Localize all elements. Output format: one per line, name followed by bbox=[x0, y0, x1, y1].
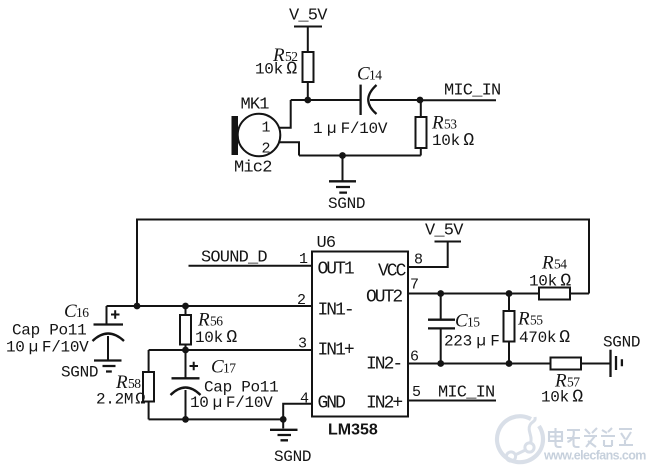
svg-text:4: 4 bbox=[300, 391, 309, 408]
wire R52 bottom to node bbox=[307, 82, 309, 100]
svg-text:2: 2 bbox=[262, 141, 270, 158]
resistor R58 wire top bbox=[148, 350, 150, 372]
svg-text:SOUND_D: SOUND_D bbox=[201, 249, 267, 268]
node F junction dot bbox=[182, 347, 189, 354]
watermark chinese text 电子发烧友 bbox=[549, 428, 633, 447]
pin number 3 (U6) bbox=[298, 336, 307, 353]
pin number 2 (U6) bbox=[297, 292, 305, 309]
ground SGND (pin4) bbox=[270, 430, 298, 441]
svg-text:SGND: SGND bbox=[274, 448, 311, 466]
R55 value 470kΩ bbox=[519, 328, 570, 348]
capacitor C14 value 1uF/10V bbox=[313, 120, 388, 138]
pin number 6 (U6) bbox=[410, 349, 419, 366]
net SOUND_D label bbox=[201, 249, 267, 268]
net MIC_IN label (pin5) bbox=[438, 384, 494, 403]
resistor R56 bbox=[180, 315, 191, 345]
microphone MK1 element bar bbox=[232, 116, 239, 155]
svg-text:14: 14 bbox=[369, 68, 382, 83]
svg-text:10µF/10V: 10µF/10V bbox=[6, 339, 89, 357]
svg-text:7: 7 bbox=[410, 277, 418, 294]
svg-text:V_5V: V_5V bbox=[289, 7, 328, 26]
node C junction dot bbox=[339, 152, 346, 159]
svg-text:8: 8 bbox=[414, 252, 423, 269]
R53 label bbox=[431, 113, 457, 134]
wire node C to ground bbox=[342, 156, 344, 182]
svg-text:IN2-: IN2- bbox=[366, 355, 401, 375]
svg-text:Cap Po11: Cap Po11 bbox=[12, 322, 86, 340]
node D junction dot bbox=[134, 303, 141, 310]
SGND label (pin4) bbox=[274, 448, 311, 466]
pin number 8 (U6) bbox=[414, 252, 423, 269]
svg-text:58: 58 bbox=[128, 376, 141, 391]
C17 plus sign bbox=[190, 362, 199, 370]
U6 pin name IN2+ bbox=[366, 394, 402, 414]
wire node H to ground bbox=[282, 419, 284, 428]
microphone MK1 label bbox=[241, 96, 270, 115]
svg-text:17: 17 bbox=[223, 361, 236, 376]
resistor R58 bbox=[143, 372, 154, 402]
resistor R56 wire bottom bbox=[185, 345, 187, 351]
ground SGND (top section) bbox=[329, 181, 356, 192]
wire R57 to ground bbox=[581, 363, 610, 365]
op-amp U6 box bbox=[312, 252, 408, 417]
power V_5V label (top) bbox=[289, 7, 328, 26]
svg-text:GND: GND bbox=[318, 394, 346, 414]
bottom wire (mic return) bbox=[299, 155, 421, 157]
resistor R55 wire top bbox=[508, 294, 510, 312]
R54 value 10kΩ bbox=[529, 272, 571, 292]
pin 6 wire bbox=[408, 363, 551, 365]
R52 label bbox=[272, 45, 298, 66]
svg-text:6: 6 bbox=[410, 349, 419, 366]
wire C17 bottom bbox=[185, 390, 187, 419]
svg-text:3: 3 bbox=[298, 336, 307, 353]
pin 4 wire bbox=[283, 404, 312, 420]
capacitor C15 top wire bbox=[440, 294, 442, 320]
power V_5V bar symbol (right) bbox=[435, 241, 462, 243]
net MIC_IN wire (top) bbox=[420, 99, 496, 101]
capacitor C15 bottom wire bbox=[440, 328, 442, 363]
capacitor C16 top plate bbox=[94, 323, 124, 325]
pin number 1 (mic) bbox=[262, 120, 271, 137]
svg-text:IN1-: IN1- bbox=[318, 301, 353, 321]
svg-text:R: R bbox=[517, 309, 530, 330]
node A junction dot bbox=[304, 97, 311, 104]
node B junction dot bbox=[417, 97, 424, 104]
R58 label bbox=[115, 372, 141, 393]
pin number 4 (U6) bbox=[300, 391, 309, 408]
capacitor C16 positive wire bbox=[106, 306, 108, 325]
wire node B to R53 bbox=[420, 100, 422, 117]
svg-text:2: 2 bbox=[297, 292, 305, 309]
node J junction dot bbox=[506, 290, 513, 297]
capacitor C14 left plate bbox=[359, 85, 361, 115]
svg-text:OUT2: OUT2 bbox=[366, 288, 402, 308]
power V_5V label (right) bbox=[425, 222, 464, 241]
svg-text:10kΩ: 10kΩ bbox=[195, 328, 237, 348]
svg-text:IN1+: IN1+ bbox=[318, 341, 354, 361]
C17 label bbox=[211, 357, 236, 378]
svg-text:10kΩ: 10kΩ bbox=[432, 131, 474, 151]
R57 value 10kΩ bbox=[541, 388, 583, 408]
svg-text:10µF/10V: 10µF/10V bbox=[190, 394, 273, 412]
svg-text:MIC_IN: MIC_IN bbox=[444, 82, 500, 101]
resistor R55 bbox=[504, 311, 515, 342]
svg-text:IN2+: IN2+ bbox=[366, 394, 402, 414]
C15 value 223uF bbox=[444, 333, 500, 351]
pin 1 wire (SOUND_D) bbox=[189, 265, 313, 267]
C16 value 10uF/10V bbox=[6, 339, 89, 357]
R55 label bbox=[517, 309, 543, 330]
ground SGND (C16) bbox=[94, 361, 122, 372]
svg-text:SGND: SGND bbox=[61, 364, 98, 382]
node K junction dot bbox=[437, 360, 444, 367]
svg-text:5: 5 bbox=[412, 384, 421, 401]
watermark www.elecfans.com bbox=[543, 449, 646, 463]
svg-text:2.2MΩ: 2.2MΩ bbox=[96, 391, 145, 410]
U6 pin name GND bbox=[318, 394, 346, 414]
pin number 1 (U6) bbox=[299, 251, 308, 268]
node E junction dot bbox=[182, 303, 189, 310]
resistor R57 bbox=[551, 358, 582, 370]
wire C14 to node B bbox=[370, 99, 420, 101]
microphone MK1 pin1 wire bbox=[280, 100, 291, 128]
svg-text:15: 15 bbox=[467, 315, 480, 330]
svg-text:10kΩ: 10kΩ bbox=[541, 388, 583, 408]
R52 value 10kΩ bbox=[255, 60, 297, 80]
node H junction dot bbox=[280, 416, 287, 423]
svg-text:MK1: MK1 bbox=[241, 96, 270, 115]
R54 label bbox=[541, 253, 567, 274]
svg-text:R: R bbox=[541, 253, 554, 274]
capacitor C17 curved plate bbox=[171, 388, 201, 396]
node L junction dot bbox=[506, 360, 513, 367]
C16 type label Cap Pol1 bbox=[12, 322, 86, 340]
svg-text:MIC_IN: MIC_IN bbox=[438, 384, 494, 403]
resistor R54 bbox=[539, 288, 570, 300]
wire R53 bottom bbox=[420, 148, 422, 156]
U6 pin name VCC bbox=[378, 262, 407, 282]
watermark logo circle bbox=[497, 416, 543, 462]
C17 type label Cap Pol1 bbox=[204, 379, 278, 397]
R58 value 2.2MΩ bbox=[96, 391, 145, 410]
svg-text:10kΩ: 10kΩ bbox=[529, 272, 571, 292]
resistor R56 wire top bbox=[185, 306, 187, 315]
power V_5V bar symbol (top) bbox=[294, 27, 322, 53]
svg-text:54: 54 bbox=[554, 257, 567, 272]
U6 pin name OUT2 bbox=[366, 288, 402, 308]
bottom left wire bbox=[149, 418, 284, 420]
SGND label (right) bbox=[603, 334, 640, 352]
pin 7 wire bbox=[408, 293, 539, 295]
C17 value 10uF/10V bbox=[190, 394, 273, 412]
svg-text:U6: U6 bbox=[317, 234, 336, 253]
svg-text:VCC: VCC bbox=[378, 262, 407, 282]
microphone Mic2 label bbox=[234, 159, 272, 178]
pin number 7 (U6) bbox=[410, 277, 418, 294]
capacitor C15 plates bbox=[428, 320, 455, 329]
pin number 2 (mic) bbox=[262, 141, 270, 158]
svg-text:470kΩ: 470kΩ bbox=[519, 328, 570, 348]
C15 label bbox=[455, 311, 480, 332]
pin 2 wire bbox=[107, 305, 313, 307]
resistor R52 bbox=[303, 52, 314, 82]
svg-text:www.elecfans.com: www.elecfans.com bbox=[543, 449, 646, 463]
C16 label bbox=[64, 301, 89, 322]
C16 plus sign bbox=[111, 310, 120, 318]
pin number 5 (U6) bbox=[412, 384, 421, 401]
SGND label (top section) bbox=[328, 195, 365, 213]
svg-text:1: 1 bbox=[262, 120, 271, 137]
svg-text:55: 55 bbox=[530, 313, 543, 328]
svg-text:SGND: SGND bbox=[328, 195, 365, 213]
U6 pin name IN1+ bbox=[318, 341, 354, 361]
U6 pin name IN1- bbox=[318, 301, 353, 321]
node G junction dot bbox=[182, 416, 189, 423]
svg-text:53: 53 bbox=[444, 117, 457, 132]
svg-text:R: R bbox=[431, 113, 444, 134]
R57 label bbox=[554, 371, 580, 392]
capacitor C14 curved plate bbox=[368, 85, 376, 114]
pin 3 wire bbox=[149, 349, 312, 351]
wire C16 to ground bbox=[107, 336, 109, 360]
microphone MK1 body circle bbox=[238, 114, 281, 157]
svg-text:56: 56 bbox=[210, 314, 223, 329]
top loop wire bbox=[137, 220, 589, 307]
R53 value 10kΩ bbox=[432, 131, 474, 151]
net MIC_IN label (top) bbox=[444, 82, 500, 101]
capacitor C14 label bbox=[357, 64, 382, 85]
capacitor C17 positive wire bbox=[185, 350, 187, 378]
node I junction dot bbox=[437, 290, 444, 297]
R56 label bbox=[197, 310, 223, 331]
svg-text:1: 1 bbox=[299, 251, 308, 268]
wire R54 to loop bbox=[570, 293, 589, 295]
resistor R55 wire bottom bbox=[508, 342, 510, 364]
op-amp U6 label bbox=[317, 234, 336, 253]
svg-text:Mic2: Mic2 bbox=[234, 159, 272, 178]
svg-text:223µF: 223µF bbox=[444, 333, 500, 351]
resistor R58 wire bottom bbox=[148, 402, 150, 420]
svg-text:OUT1: OUT1 bbox=[318, 260, 354, 280]
wire node A to C14 left plate bbox=[291, 99, 361, 101]
R56 value 10kΩ bbox=[195, 328, 237, 348]
U6 pin name IN2- bbox=[366, 355, 401, 375]
svg-text:16: 16 bbox=[76, 305, 89, 320]
net MIC_IN wire (pin5) bbox=[408, 400, 496, 402]
svg-text:10kΩ: 10kΩ bbox=[255, 60, 297, 80]
ground SGND (right, sideways) bbox=[611, 350, 622, 377]
capacitor C16 curved plate bbox=[93, 334, 125, 342]
svg-text:LM358: LM358 bbox=[328, 422, 378, 439]
resistor R53 bbox=[416, 117, 427, 148]
capacitor C17 top plate bbox=[172, 377, 200, 379]
U6 pin name OUT1 bbox=[318, 260, 354, 280]
svg-text:SGND: SGND bbox=[603, 334, 640, 352]
SGND label (C16) bbox=[61, 364, 98, 382]
microphone MK1 pin2 wire bbox=[279, 142, 299, 155]
op-amp LM358 label bbox=[328, 422, 378, 439]
svg-text:R: R bbox=[197, 310, 210, 331]
svg-text:V_5V: V_5V bbox=[425, 222, 464, 241]
pin 8 wire bbox=[408, 242, 448, 268]
